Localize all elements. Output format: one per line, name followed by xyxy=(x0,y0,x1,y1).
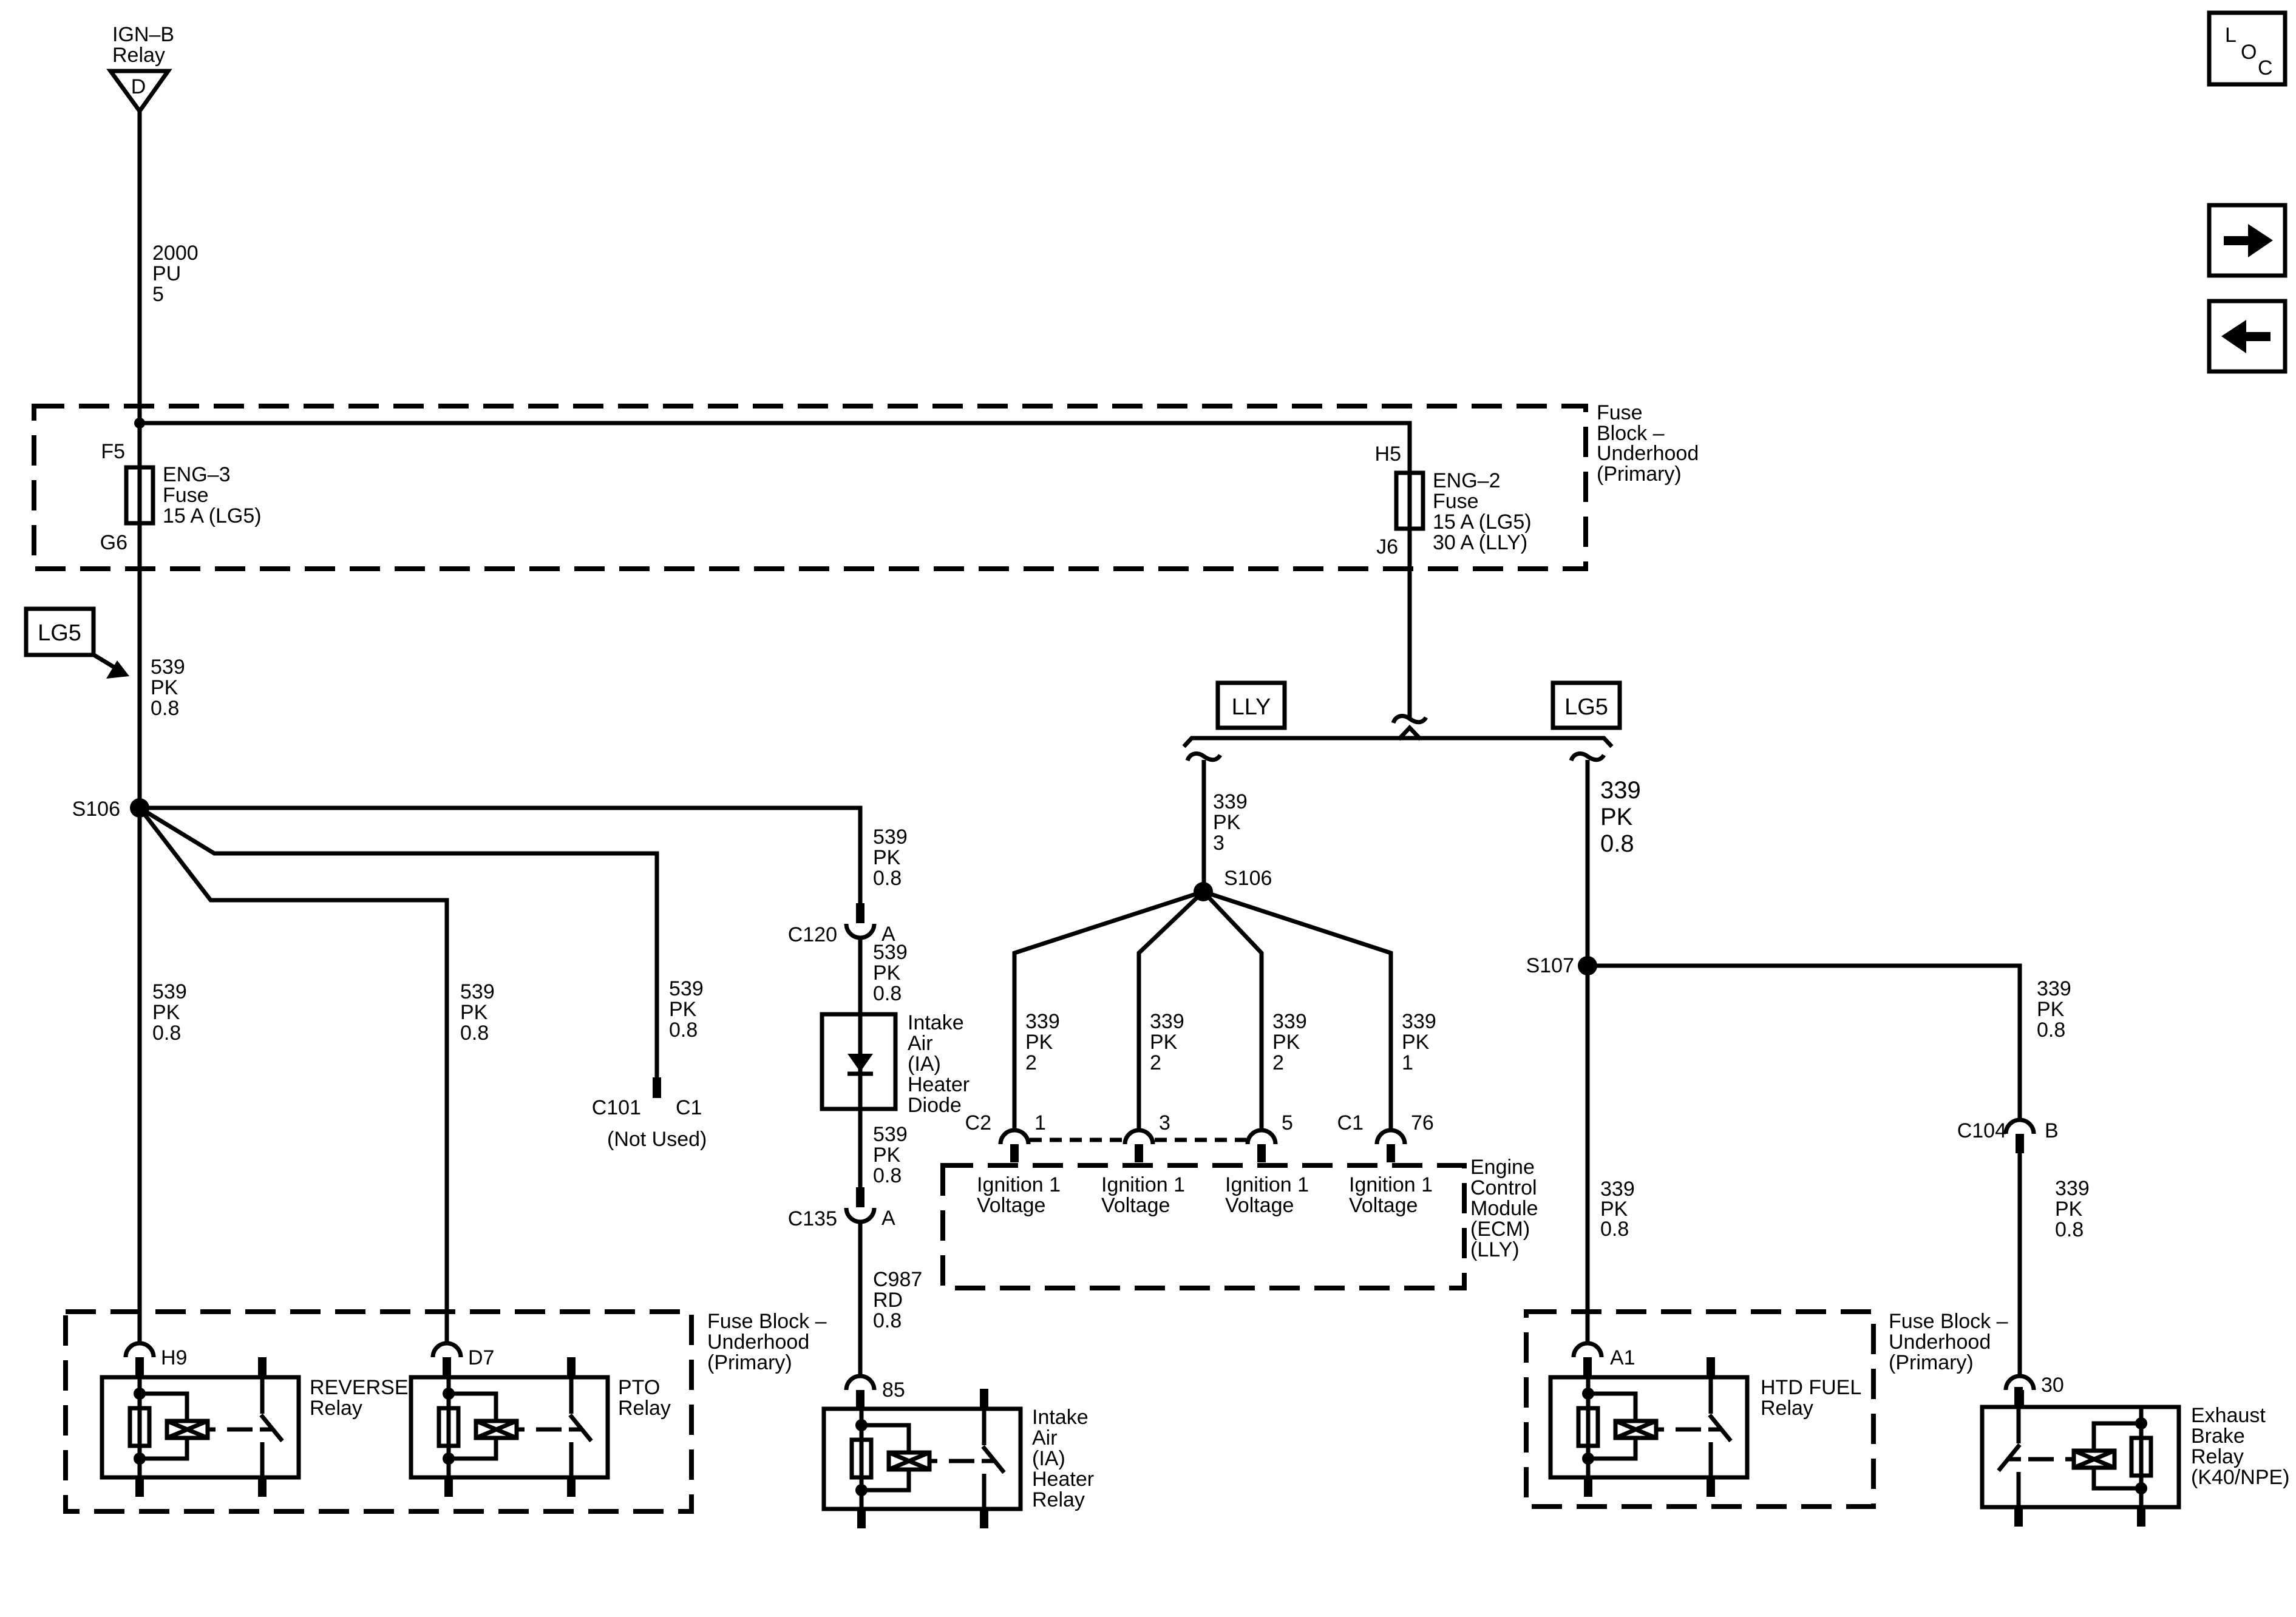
relay REVERSE box xyxy=(102,1377,299,1477)
relay IA HEATER switch bottom terminal blade xyxy=(980,1509,988,1528)
svg-text:(ECM): (ECM) xyxy=(1470,1218,1530,1241)
relay IA HEATER coil top junction dot xyxy=(855,1419,868,1431)
relay IA HEATER switch blade xyxy=(983,1446,1004,1473)
relay HTD FUEL coil resistor xyxy=(1578,1408,1598,1446)
svg-text:15 A (LG5): 15 A (LG5) xyxy=(1433,510,1532,534)
svg-text:PK: PK xyxy=(873,961,901,985)
relay REVERSE switch top terminal blade xyxy=(258,1357,267,1377)
relay HTD FUEL box xyxy=(1550,1377,1747,1477)
svg-text:O: O xyxy=(2241,41,2257,64)
svg-text:Brake: Brake xyxy=(2191,1425,2245,1448)
svg-text:0.8: 0.8 xyxy=(2037,1019,2065,1042)
svg-text:C120: C120 xyxy=(788,923,837,946)
svg-text:S107: S107 xyxy=(1526,954,1574,977)
ECM pin 3 blade xyxy=(1135,1144,1143,1162)
svg-text:RD: RD xyxy=(873,1289,903,1312)
svg-text:(Not Used): (Not Used) xyxy=(607,1128,707,1151)
wire: LG5 branch down to S107 xyxy=(1586,760,1590,966)
wire: diode to C135 xyxy=(858,1109,863,1187)
svg-text:3: 3 xyxy=(1159,1111,1170,1134)
wire: S106 branch to PTO relay D7 xyxy=(140,808,447,1343)
relay IA HEATER coil bottom terminal blade xyxy=(857,1509,866,1528)
svg-text:339: 339 xyxy=(1213,790,1248,813)
svg-text:2: 2 xyxy=(1150,1051,1161,1074)
svg-text:339: 339 xyxy=(2037,977,2071,1000)
svg-text:Engine: Engine xyxy=(1470,1156,1535,1179)
relay IA HEATER actuator dashed link xyxy=(949,1459,974,1463)
engine variant brace xyxy=(1184,738,1612,747)
svg-text:Module: Module xyxy=(1470,1197,1538,1220)
relay pin H9 connector arc xyxy=(126,1343,154,1357)
fuse F5 ENG-3 symbol xyxy=(126,467,153,523)
svg-text:Relay: Relay xyxy=(112,44,165,67)
relay PTO coil top junction dot xyxy=(443,1388,455,1400)
svg-text:Voltage: Voltage xyxy=(1225,1194,1294,1217)
ECM pin 76 blade xyxy=(1387,1144,1395,1162)
diode symbol xyxy=(847,1054,873,1072)
relay PTO box xyxy=(411,1377,608,1477)
wire: C120 to IA heater diode xyxy=(858,938,863,1014)
svg-text:PK: PK xyxy=(1272,1031,1300,1054)
relay HTD FUEL solenoid tick xyxy=(1656,1428,1664,1432)
svg-text:(K40/NPE): (K40/NPE) xyxy=(2191,1466,2290,1489)
svg-text:C1: C1 xyxy=(1337,1111,1364,1134)
relay EXHAUST BRAKE solenoid parallel loop wire xyxy=(2094,1423,2141,1451)
relay IA HEATER solenoid tick xyxy=(929,1459,937,1463)
relay IA HEATER solenoid coil symbol xyxy=(889,1453,929,1470)
ECM pin 3 connector arc xyxy=(1125,1130,1153,1144)
intake air heater diode box xyxy=(822,1014,895,1109)
svg-text:1: 1 xyxy=(1034,1111,1046,1134)
connector C135 blade xyxy=(856,1187,864,1207)
svg-text:Air: Air xyxy=(1032,1426,1058,1449)
svg-text:Air: Air xyxy=(908,1032,933,1055)
relay EXHAUST BRAKE coil top junction dot xyxy=(2135,1417,2147,1429)
LG5 tag box (engine split) xyxy=(1553,683,1620,728)
svg-text:Diode: Diode xyxy=(908,1094,962,1117)
svg-text:PK: PK xyxy=(151,676,178,699)
svg-text:Ignition 1: Ignition 1 xyxy=(1225,1173,1309,1196)
svg-text:H9: H9 xyxy=(161,1346,187,1369)
svg-text:15 A (LG5): 15 A (LG5) xyxy=(163,504,262,527)
svg-text:2: 2 xyxy=(1272,1051,1284,1074)
svg-text:0.8: 0.8 xyxy=(1600,1218,1629,1241)
relay PTO solenoid tick xyxy=(517,1428,525,1432)
svg-text:S106: S106 xyxy=(1224,867,1272,890)
relay HTD FUEL coil bottom junction dot xyxy=(1582,1453,1594,1465)
svg-text:ENG–3: ENG–3 xyxy=(163,463,231,486)
engine control module (ECM) dashed box xyxy=(943,1165,1464,1288)
svg-text:LG5: LG5 xyxy=(1564,694,1608,720)
relay PTO switch bottom pin xyxy=(569,1442,574,1477)
ECM pin 1 connector arc xyxy=(1000,1130,1028,1144)
relay HTD FUEL switch top terminal blade xyxy=(1707,1357,1715,1377)
svg-text:539: 539 xyxy=(873,825,908,849)
svg-text:30 A (LLY): 30 A (LLY) xyxy=(1433,531,1527,554)
svg-text:REVERSE: REVERSE xyxy=(310,1376,409,1399)
relay PTO solenoid coil symbol xyxy=(476,1421,517,1438)
svg-text:PTO: PTO xyxy=(618,1376,660,1399)
svg-text:539: 539 xyxy=(151,656,185,679)
svg-text:0.8: 0.8 xyxy=(669,1019,698,1042)
ECM pin 1 blade xyxy=(1010,1144,1019,1162)
svg-text:339: 339 xyxy=(2055,1177,2090,1200)
svg-text:Ignition 1: Ignition 1 xyxy=(1101,1173,1185,1196)
wire: S106 fan branch to ECM pin 4 xyxy=(1203,892,1391,1130)
svg-text:Relay: Relay xyxy=(1032,1488,1085,1511)
svg-text:C987: C987 xyxy=(873,1268,922,1291)
hook tilde at LLY branch top xyxy=(1187,754,1220,761)
relay HTD FUEL solenoid parallel loop wire xyxy=(1588,1394,1635,1421)
wire: S107 down to HTD FUEL relay A1 xyxy=(1586,966,1590,1343)
wire: S106 to C120 column xyxy=(140,808,860,903)
svg-text:D: D xyxy=(131,75,146,98)
relay IA HEATER switch top terminal blade xyxy=(980,1389,988,1409)
LLY tag box xyxy=(1218,683,1285,728)
relay pin A1 blade xyxy=(1583,1357,1592,1377)
svg-text:Voltage: Voltage xyxy=(977,1194,1045,1217)
svg-text:PU: PU xyxy=(152,262,181,285)
svg-text:Voltage: Voltage xyxy=(1101,1194,1170,1217)
ECM pin 5 connector arc xyxy=(1248,1130,1275,1144)
relay IA HEATER switch bottom pin xyxy=(982,1474,987,1509)
relay REVERSE solenoid coil symbol xyxy=(167,1421,208,1438)
svg-text:PK: PK xyxy=(669,998,697,1021)
svg-text:(IA): (IA) xyxy=(1032,1447,1065,1470)
svg-text:0.8: 0.8 xyxy=(873,867,902,890)
relay HTD FUEL switch top pin xyxy=(1709,1377,1713,1414)
svg-text:0.8: 0.8 xyxy=(151,697,179,720)
svg-text:D7: D7 xyxy=(468,1346,494,1369)
fuse block underhood (primary) bottom-left dashed box xyxy=(66,1312,691,1511)
svg-text:1: 1 xyxy=(1402,1051,1413,1074)
relay HTD FUEL coil top junction dot xyxy=(1582,1388,1594,1400)
relay REVERSE coil pin wire xyxy=(138,1377,142,1477)
svg-text:Underhood: Underhood xyxy=(1889,1331,1991,1354)
svg-text:Ignition 1: Ignition 1 xyxy=(977,1173,1061,1196)
relay pin H9 blade xyxy=(135,1357,144,1377)
svg-text:C135: C135 xyxy=(788,1207,837,1230)
relay EXHAUST BRAKE switch top terminal blade xyxy=(2014,1387,2023,1407)
svg-text:LLY: LLY xyxy=(1232,694,1271,720)
relay EXHAUST BRAKE switch bottom terminal blade xyxy=(2014,1507,2023,1527)
svg-text:Underhood: Underhood xyxy=(1597,442,1699,465)
wire: S106 fan branch to ECM pin 1 xyxy=(1014,892,1203,1130)
svg-text:A1: A1 xyxy=(1610,1346,1635,1369)
wire: S106 down to REVERSE relay H9 xyxy=(138,808,142,1343)
relay EXHAUST BRAKE box xyxy=(1982,1407,2179,1507)
relay REVERSE switch bottom terminal blade xyxy=(258,1477,267,1497)
relay EXHAUST BRAKE actuator dashed link xyxy=(2028,1457,2054,1462)
wire: C135 to IA heater relay pin 85 xyxy=(858,1222,863,1376)
svg-text:C1: C1 xyxy=(676,1096,702,1119)
svg-text:Ignition 1: Ignition 1 xyxy=(1349,1173,1433,1196)
connector C104 arc xyxy=(2006,1120,2034,1134)
svg-text:Fuse Block –: Fuse Block – xyxy=(1889,1310,2008,1333)
relay EXHAUST BRAKE coil bottom junction dot xyxy=(2135,1482,2147,1494)
relay EXHAUST BRAKE coil pin wire xyxy=(2139,1407,2144,1507)
svg-text:(Primary): (Primary) xyxy=(1597,463,1682,486)
connector C101 stub terminal xyxy=(653,1077,661,1098)
relay REVERSE coil resistor xyxy=(130,1408,149,1446)
svg-text:LG5: LG5 xyxy=(38,620,81,646)
svg-text:C: C xyxy=(2258,56,2273,80)
svg-text:ENG–2: ENG–2 xyxy=(1433,469,1501,492)
svg-text:PK: PK xyxy=(152,1001,180,1024)
relay pin 30 connector arc xyxy=(2006,1376,2034,1390)
wire: IGN-B relay to fuse block F5 xyxy=(138,111,142,467)
relay PTO coil bottom junction dot xyxy=(443,1453,455,1465)
relay IA HEATER solenoid parallel loop wire xyxy=(861,1425,909,1453)
svg-text:C104: C104 xyxy=(1957,1119,2006,1142)
next-page arrow box xyxy=(2209,205,2285,276)
svg-text:Relay: Relay xyxy=(310,1397,362,1420)
wire: C104 down to exhaust brake relay pin 30 xyxy=(2018,1153,2022,1375)
svg-text:539: 539 xyxy=(873,1123,908,1146)
relay IA HEATER coil pin wire xyxy=(860,1409,864,1509)
svg-text:0.8: 0.8 xyxy=(152,1022,181,1045)
relay PTO switch top pin xyxy=(569,1377,574,1414)
relay pin D7 connector arc xyxy=(433,1343,461,1357)
svg-text:Voltage: Voltage xyxy=(1349,1194,1418,1217)
fuse block underhood (primary) top dashed box xyxy=(34,406,1586,569)
relay PTO switch blade xyxy=(570,1415,591,1441)
svg-text:PK: PK xyxy=(1150,1031,1178,1054)
relay PTO coil resistor xyxy=(439,1408,458,1446)
fuse block underhood (primary) bottom-right dashed box xyxy=(1526,1312,1873,1507)
svg-text:G6: G6 xyxy=(100,531,127,554)
svg-text:PK: PK xyxy=(1213,811,1241,834)
svg-text:(IA): (IA) xyxy=(908,1053,941,1076)
connector C2 dashed line xyxy=(1030,1138,1123,1142)
LOC legend box xyxy=(2209,13,2285,84)
svg-text:IGN–B: IGN–B xyxy=(112,23,174,46)
svg-text:539: 539 xyxy=(152,980,187,1003)
svg-text:PK: PK xyxy=(2055,1198,2083,1221)
svg-text:Exhaust: Exhaust xyxy=(2191,1404,2266,1427)
relay IA HEATER box xyxy=(824,1409,1021,1509)
svg-text:539: 539 xyxy=(873,941,908,964)
relay REVERSE switch blade xyxy=(261,1415,282,1441)
brace center caret xyxy=(1399,728,1421,739)
svg-text:339: 339 xyxy=(1272,1010,1307,1033)
connector C135 arc xyxy=(846,1208,874,1222)
relay HTD FUEL switch bottom pin xyxy=(1709,1442,1713,1477)
svg-text:0.8: 0.8 xyxy=(873,982,902,1005)
wire: S106 fan branch to ECM pin 2 xyxy=(1139,892,1203,1130)
relay REVERSE coil top junction dot xyxy=(134,1388,146,1400)
relay PTO coil bottom terminal blade xyxy=(444,1477,453,1497)
relay HTD FUEL coil bottom terminal blade xyxy=(1584,1477,1592,1497)
relay HTD FUEL coil pin wire xyxy=(1586,1377,1591,1477)
wire: S106 fan branch to ECM pin 3 xyxy=(1203,892,1262,1130)
svg-text:339: 339 xyxy=(1025,1010,1060,1033)
svg-text:Intake: Intake xyxy=(908,1011,964,1034)
svg-text:Underhood: Underhood xyxy=(707,1331,809,1354)
relay REVERSE switch top pin xyxy=(260,1377,265,1414)
svg-text:Intake: Intake xyxy=(1032,1406,1089,1429)
relay EXHAUST BRAKE switch blade xyxy=(1999,1445,2020,1471)
svg-text:85: 85 xyxy=(882,1378,905,1402)
LG5 engine tag box (left) xyxy=(26,609,93,655)
relay pin 30 blade xyxy=(2016,1390,2024,1408)
svg-text:Heater: Heater xyxy=(1032,1468,1094,1491)
relay REVERSE switch bottom pin xyxy=(260,1442,265,1477)
relay REVERSE coil bottom terminal blade xyxy=(135,1477,144,1497)
svg-text:(Primary): (Primary) xyxy=(1889,1351,1974,1374)
svg-text:539: 539 xyxy=(669,977,704,1000)
svg-text:Fuse: Fuse xyxy=(1433,490,1479,513)
svg-text:Fuse: Fuse xyxy=(1597,401,1643,424)
svg-text:PK: PK xyxy=(873,1144,901,1167)
svg-text:2000: 2000 xyxy=(152,242,199,265)
svg-text:0.8: 0.8 xyxy=(1600,830,1634,857)
connector C120 arc xyxy=(846,924,874,938)
relay IA HEATER switch top pin xyxy=(982,1409,987,1445)
wire: S107 right to C104 xyxy=(1588,966,2020,1120)
previous-page arrow box xyxy=(2209,301,2285,371)
svg-text:J6: J6 xyxy=(1376,535,1398,558)
svg-text:Relay: Relay xyxy=(1761,1397,1813,1420)
relay EXHAUST BRAKE switch bottom pin xyxy=(2017,1472,2021,1507)
relay EXHAUST BRAKE solenoid tick xyxy=(2065,1457,2073,1462)
ECM pin 76 connector arc xyxy=(1377,1130,1405,1144)
svg-text:PK: PK xyxy=(2037,998,2065,1021)
relay PTO switch top terminal blade xyxy=(567,1357,576,1377)
svg-text:3: 3 xyxy=(1213,832,1224,855)
wire through diode box xyxy=(858,1014,863,1109)
svg-text:76: 76 xyxy=(1411,1111,1434,1134)
relay REVERSE solenoid tick xyxy=(208,1428,216,1432)
relay HTD FUEL switch bottom terminal blade xyxy=(1707,1477,1715,1497)
svg-text:0.8: 0.8 xyxy=(873,1164,902,1187)
relay IA HEATER coil resistor xyxy=(852,1440,871,1477)
wire: S106 branch to C101 xyxy=(140,808,657,1077)
svg-text:PK: PK xyxy=(460,1001,488,1024)
svg-text:S106: S106 xyxy=(72,798,120,821)
svg-text:C2: C2 xyxy=(965,1111,991,1134)
svg-text:339: 339 xyxy=(1150,1010,1184,1033)
svg-text:Relay: Relay xyxy=(618,1397,671,1420)
wire break tilde at J6 branch xyxy=(1393,716,1426,723)
relay EXHAUST BRAKE switch top pin xyxy=(2017,1407,2021,1443)
connector C120 blade xyxy=(856,903,864,923)
LG5 tag arrow xyxy=(93,654,116,668)
svg-text:339: 339 xyxy=(1600,777,1641,804)
connector C104 blade xyxy=(2016,1134,2024,1153)
relay pin A1 connector arc xyxy=(1574,1343,1601,1357)
svg-text:B: B xyxy=(2045,1119,2059,1142)
svg-text:PK: PK xyxy=(1600,804,1633,830)
relay PTO actuator dashed link xyxy=(536,1428,562,1432)
relay HTD FUEL actuator dashed link xyxy=(1676,1428,1701,1432)
svg-text:539: 539 xyxy=(460,980,495,1003)
node: bus junction dot xyxy=(134,418,145,429)
svg-text:Relay: Relay xyxy=(2191,1445,2244,1468)
relay EXHAUST BRAKE solenoid coil symbol xyxy=(2074,1451,2114,1468)
splice S106 (LLY) node dot xyxy=(1194,882,1213,901)
svg-text:A: A xyxy=(881,1207,895,1230)
svg-text:339: 339 xyxy=(1402,1010,1436,1033)
svg-text:Fuse Block –: Fuse Block – xyxy=(707,1310,827,1333)
svg-text:5: 5 xyxy=(1282,1111,1293,1134)
svg-text:HTD FUEL: HTD FUEL xyxy=(1761,1376,1861,1399)
svg-text:PK: PK xyxy=(873,846,901,869)
splice S107 node dot xyxy=(1578,956,1597,975)
relay pin D7 blade xyxy=(443,1357,451,1377)
relay PTO switch bottom terminal blade xyxy=(567,1477,576,1497)
svg-text:2: 2 xyxy=(1025,1051,1037,1074)
relay PTO solenoid parallel loop wire xyxy=(449,1394,496,1421)
relay EXHAUST BRAKE coil bottom terminal blade xyxy=(2137,1507,2145,1527)
svg-text:0.8: 0.8 xyxy=(2055,1218,2084,1241)
svg-text:Fuse: Fuse xyxy=(163,484,209,507)
hook tilde at LG5 branch top xyxy=(1571,754,1604,761)
relay REVERSE actuator dashed link xyxy=(227,1428,253,1432)
relay EXHAUST BRAKE coil resistor xyxy=(2131,1438,2151,1476)
svg-text:PK: PK xyxy=(1402,1031,1430,1054)
IA relay pin 85 blade xyxy=(856,1390,864,1409)
ECM pin 5 blade xyxy=(1257,1144,1266,1162)
svg-text:L: L xyxy=(2225,24,2237,47)
bus wire from F5 to H5 xyxy=(140,423,1410,473)
svg-text:(Primary): (Primary) xyxy=(707,1351,792,1374)
relay HTD FUEL solenoid coil symbol xyxy=(1615,1421,1656,1438)
wire: LLY branch down to S106 xyxy=(1202,760,1206,892)
relay IA HEATER coil bottom junction dot xyxy=(855,1484,868,1496)
relay REVERSE coil bottom junction dot xyxy=(134,1453,146,1465)
IA relay pin 85 connector arc xyxy=(846,1376,874,1390)
svg-text:(LLY): (LLY) xyxy=(1470,1238,1520,1261)
svg-text:PK: PK xyxy=(1025,1031,1053,1054)
IGN-B relay triangle symbol xyxy=(110,71,168,111)
svg-text:5: 5 xyxy=(152,283,164,306)
svg-text:C101: C101 xyxy=(592,1096,641,1119)
svg-text:0.8: 0.8 xyxy=(460,1022,489,1045)
wire: G6 down to S106 xyxy=(138,523,142,808)
splice S106 node dot xyxy=(130,798,149,818)
svg-text:Heater: Heater xyxy=(908,1073,970,1096)
relay REVERSE solenoid parallel loop wire xyxy=(140,1394,187,1421)
svg-text:0.8: 0.8 xyxy=(873,1309,902,1332)
relay PTO coil pin wire xyxy=(447,1377,451,1477)
relay HTD FUEL switch blade xyxy=(1710,1415,1731,1441)
fuse H5 ENG-2 symbol xyxy=(1396,473,1423,529)
wire: J6 down to engine split xyxy=(1408,529,1412,720)
svg-text:30: 30 xyxy=(2041,1374,2064,1397)
svg-text:Control: Control xyxy=(1470,1176,1537,1199)
svg-text:H5: H5 xyxy=(1375,442,1401,466)
svg-text:F5: F5 xyxy=(101,440,125,463)
